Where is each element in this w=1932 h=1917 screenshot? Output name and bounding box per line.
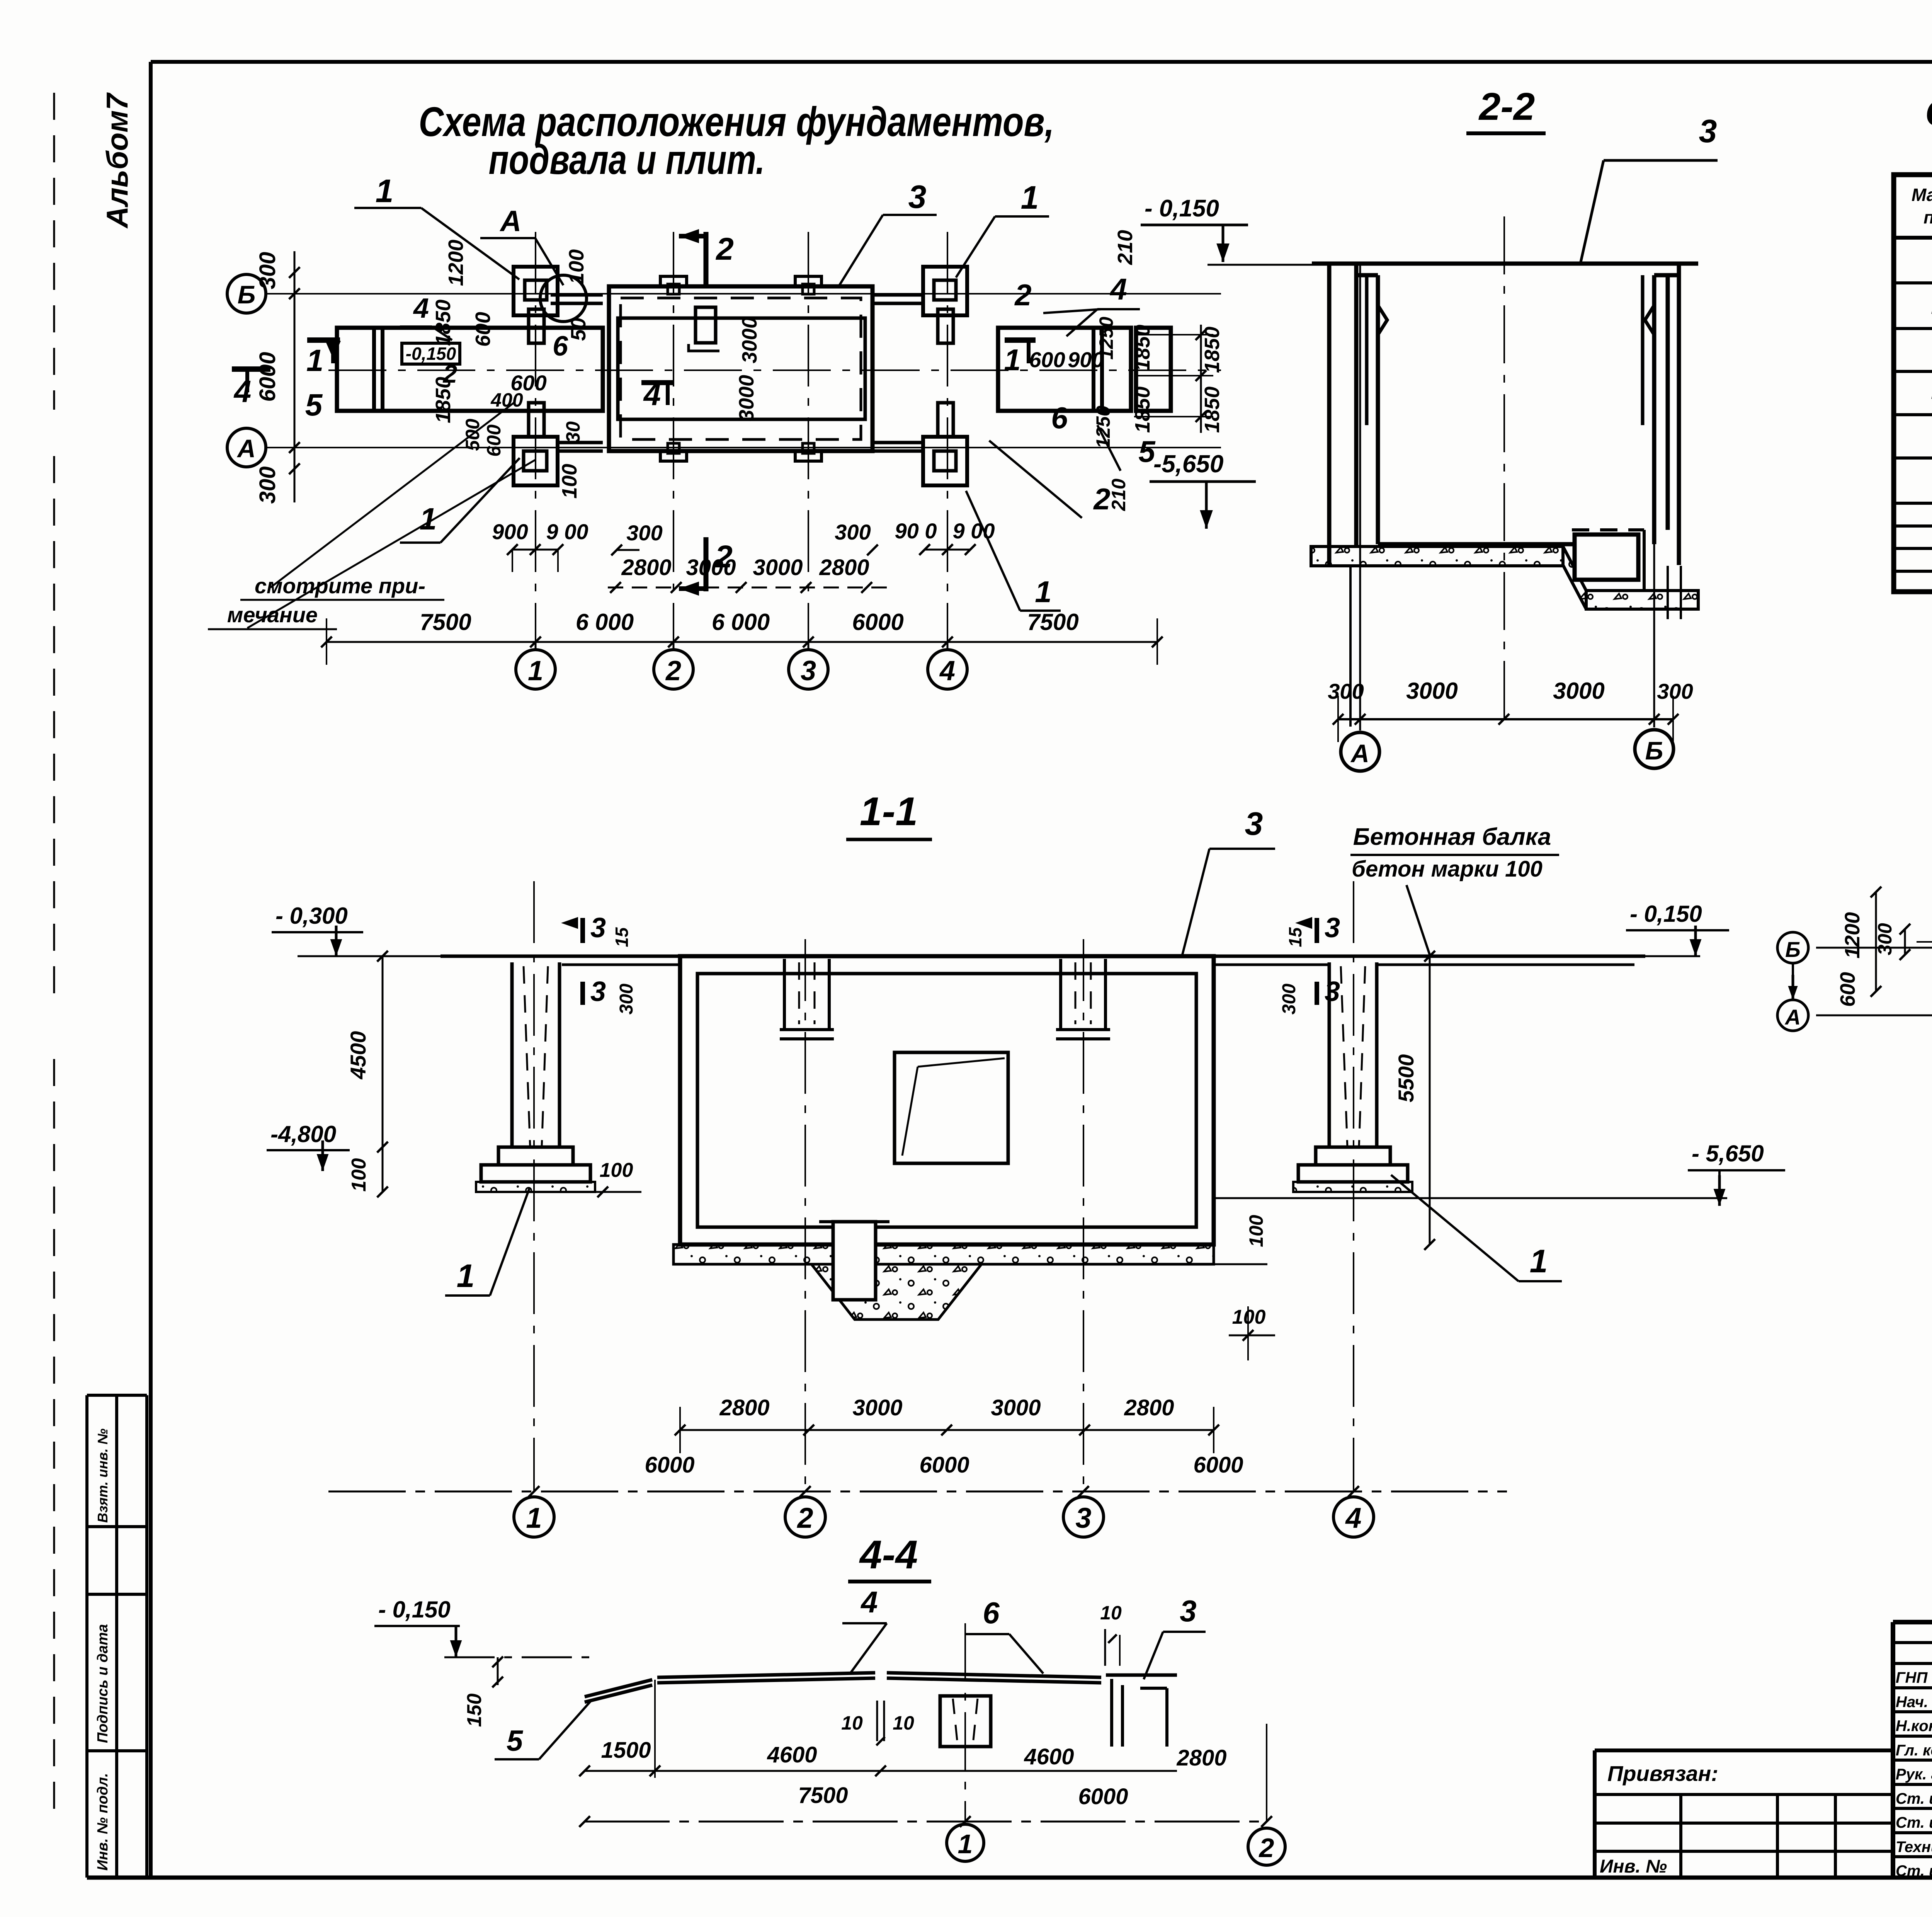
svg-text:3: 3 — [1180, 1594, 1196, 1628]
svg-text:1: 1 — [1035, 575, 1051, 609]
svg-text:Спецификация к схеме распол: Спецификация к схеме расположения — [1925, 92, 1932, 134]
svg-text:Б: Б — [1645, 736, 1663, 765]
svg-text:2: 2 — [1014, 278, 1031, 312]
svg-text:10: 10 — [893, 1712, 914, 1734]
svg-text:1: 1 — [1530, 1243, 1548, 1279]
svg-text:6: 6 — [553, 331, 568, 362]
svg-text:Инв. № подл.: Инв. № подл. — [95, 1773, 111, 1871]
svg-text:500: 500 — [462, 419, 483, 451]
svg-text:1850: 1850 — [1131, 386, 1154, 433]
svg-text:- 0,150: - 0,150 — [1145, 195, 1219, 222]
svg-text:3: 3 — [801, 655, 816, 686]
svg-text:Бетонная балка: Бетонная балка — [1353, 824, 1551, 850]
svg-text:3000: 3000 — [1406, 678, 1458, 704]
svg-text:6000: 6000 — [255, 352, 280, 402]
svg-text:Техник: Техник — [1896, 1839, 1932, 1856]
svg-text:поз: поз — [1923, 207, 1932, 227]
svg-text:- 0,150: - 0,150 — [1630, 901, 1702, 927]
svg-text:3: 3 — [1325, 976, 1340, 1007]
svg-text:90 0: 90 0 — [895, 519, 937, 543]
svg-text:Рук. гр.: Рук. гр. — [1896, 1766, 1932, 1783]
svg-text:- 0,150: - 0,150 — [378, 1597, 451, 1622]
svg-text:1200: 1200 — [1841, 912, 1864, 958]
svg-text:1250: 1250 — [1092, 405, 1114, 448]
svg-text:6 000: 6 000 — [712, 609, 770, 635]
svg-text:2800: 2800 — [1176, 1745, 1226, 1771]
svg-text:3000: 3000 — [753, 555, 803, 580]
svg-text:100: 100 — [348, 1158, 370, 1192]
svg-text:Альбом7: Альбом7 — [100, 92, 134, 229]
svg-text:4: 4 — [233, 374, 252, 409]
svg-text:3000: 3000 — [738, 317, 761, 363]
svg-text:6: 6 — [983, 1596, 1000, 1630]
svg-text:1-1: 1-1 — [860, 789, 918, 834]
svg-text:300: 300 — [626, 521, 662, 545]
svg-text:1200: 1200 — [444, 240, 468, 286]
svg-text:1500: 1500 — [601, 1738, 651, 1763]
svg-text:Ст. инж.: Ст. инж. — [1896, 1790, 1932, 1807]
svg-text:подвала и плит.: подвала и плит. — [489, 136, 765, 183]
svg-text:Марка: Марка — [1912, 185, 1932, 205]
svg-text:150: 150 — [463, 1694, 486, 1727]
svg-text:2: 2 — [715, 232, 734, 267]
svg-text:100: 100 — [1232, 1306, 1266, 1328]
svg-text:600: 600 — [1029, 347, 1065, 372]
svg-text:-5,650: -5,650 — [1153, 450, 1223, 478]
svg-text:-4,800: -4,800 — [270, 1121, 336, 1147]
svg-text:210: 210 — [1108, 478, 1129, 511]
svg-text:2: 2 — [1259, 1833, 1274, 1863]
svg-text:100: 100 — [565, 249, 588, 284]
svg-text:4: 4 — [413, 293, 429, 324]
svg-text:5500: 5500 — [1394, 1054, 1418, 1103]
svg-text:4: 4 — [1109, 272, 1127, 306]
svg-text:6000: 6000 — [645, 1452, 694, 1478]
svg-text:6000: 6000 — [852, 609, 903, 635]
svg-text:1850: 1850 — [1131, 325, 1154, 371]
svg-text:100: 100 — [1245, 1215, 1267, 1247]
svg-text:7500: 7500 — [798, 1783, 848, 1808]
svg-text:9 00: 9 00 — [546, 519, 588, 544]
svg-text:2800: 2800 — [719, 1395, 769, 1420]
svg-text:1: 1 — [958, 1829, 973, 1859]
svg-text:4: 4 — [939, 655, 955, 686]
svg-text:7500: 7500 — [1027, 609, 1078, 635]
svg-text:6 000: 6 000 — [576, 609, 634, 635]
svg-text:4-4: 4-4 — [859, 1532, 918, 1577]
svg-text:3000: 3000 — [852, 1395, 902, 1420]
svg-text:Б: Б — [1785, 937, 1801, 962]
svg-text:3000: 3000 — [1553, 678, 1604, 704]
svg-text:3: 3 — [908, 179, 927, 215]
svg-text:30: 30 — [562, 421, 584, 443]
svg-text:1850: 1850 — [1201, 386, 1224, 433]
svg-text:600: 600 — [510, 371, 546, 395]
svg-text:300: 300 — [1279, 984, 1299, 1015]
svg-text:2: 2 — [665, 655, 681, 686]
svg-text:3: 3 — [590, 976, 606, 1007]
svg-text:2800: 2800 — [819, 555, 869, 580]
svg-text:Нач. отд.: Нач. отд. — [1896, 1694, 1932, 1711]
svg-text:6000: 6000 — [1193, 1452, 1243, 1478]
svg-text:300: 300 — [616, 984, 637, 1015]
svg-text:6000: 6000 — [1078, 1784, 1128, 1809]
svg-text:1: 1 — [1004, 343, 1020, 377]
svg-text:300: 300 — [255, 252, 280, 289]
svg-text:3000: 3000 — [991, 1395, 1041, 1420]
svg-text:4600: 4600 — [767, 1742, 817, 1767]
svg-text:3: 3 — [590, 913, 606, 943]
svg-text:300: 300 — [1874, 923, 1896, 955]
svg-text:10: 10 — [1100, 1602, 1122, 1624]
svg-text:Инв. №: Инв. № — [1600, 1856, 1667, 1877]
svg-text:смотрите при-: смотрите при- — [255, 574, 425, 598]
svg-text:4: 4 — [1345, 1502, 1361, 1534]
svg-text:1250: 1250 — [1095, 317, 1117, 359]
svg-text:210: 210 — [1114, 230, 1137, 265]
svg-text:Гл. констр: Гл. констр — [1896, 1742, 1932, 1759]
svg-text:Привязан:: Привязан: — [1607, 1761, 1718, 1786]
svg-text:2: 2 — [796, 1502, 813, 1534]
svg-text:9 00: 9 00 — [953, 519, 995, 543]
svg-text:Н.контр.: Н.контр. — [1896, 1718, 1932, 1735]
svg-text:2-2: 2-2 — [1478, 85, 1535, 128]
svg-text:ГНП: ГНП — [1896, 1669, 1928, 1686]
svg-text:3: 3 — [1075, 1502, 1091, 1534]
svg-text:А: А — [1784, 1005, 1801, 1029]
svg-text:4: 4 — [643, 377, 661, 412]
svg-text:300: 300 — [255, 466, 280, 504]
svg-text:Ст. инж.: Ст. инж. — [1896, 1814, 1932, 1831]
svg-text:4: 4 — [860, 1585, 878, 1619]
svg-text:3: 3 — [1325, 913, 1340, 943]
svg-text:300: 300 — [1657, 679, 1693, 703]
svg-text:1: 1 — [376, 173, 394, 209]
svg-text:100: 100 — [558, 464, 581, 499]
svg-text:мечание: мечание — [227, 603, 318, 627]
svg-text:600: 600 — [471, 312, 495, 347]
svg-text:15: 15 — [612, 927, 632, 947]
svg-text:А: А — [500, 205, 522, 238]
svg-text:100: 100 — [600, 1159, 633, 1182]
svg-text:15: 15 — [1285, 927, 1305, 947]
svg-text:600: 600 — [483, 424, 505, 457]
svg-text:3: 3 — [1699, 113, 1717, 149]
svg-text:Взят. инв. №: Взят. инв. № — [95, 1428, 111, 1523]
svg-text:- 5,650: - 5,650 — [1692, 1141, 1764, 1166]
svg-text:5: 5 — [305, 388, 323, 422]
svg-text:2: 2 — [442, 359, 457, 388]
svg-text:6: 6 — [1051, 401, 1068, 435]
svg-text:900: 900 — [492, 519, 528, 544]
svg-text:7500: 7500 — [420, 609, 471, 635]
svg-text:бетон марки 100: бетон марки 100 — [1352, 856, 1543, 882]
svg-text:А: А — [1350, 739, 1369, 768]
svg-text:6000: 6000 — [919, 1452, 969, 1478]
svg-text:1850: 1850 — [1201, 327, 1224, 373]
svg-text:А: А — [236, 434, 256, 463]
svg-text:- 0,300: - 0,300 — [276, 903, 348, 929]
svg-text:Б: Б — [238, 280, 256, 309]
svg-text:1: 1 — [526, 1502, 542, 1534]
svg-text:5: 5 — [507, 1725, 524, 1757]
svg-text:1: 1 — [528, 655, 543, 686]
svg-text:Ст. инж.: Ст. инж. — [1896, 1863, 1932, 1880]
svg-text:600: 600 — [1836, 972, 1859, 1007]
svg-text:2800: 2800 — [621, 555, 671, 580]
svg-text:Подпись и дата: Подпись и дата — [95, 1624, 111, 1743]
svg-text:2800: 2800 — [1124, 1395, 1174, 1420]
svg-text:4500: 4500 — [346, 1031, 370, 1080]
svg-text:3: 3 — [1245, 805, 1263, 842]
svg-text:1: 1 — [306, 343, 324, 378]
svg-text:50: 50 — [567, 318, 590, 341]
svg-text:1: 1 — [457, 1258, 475, 1294]
svg-text:300: 300 — [835, 520, 871, 544]
svg-text:3000: 3000 — [735, 375, 758, 421]
svg-text:4600: 4600 — [1024, 1744, 1074, 1769]
svg-text:3000: 3000 — [686, 555, 736, 580]
svg-text:10: 10 — [841, 1712, 863, 1734]
svg-text:300: 300 — [1328, 679, 1364, 703]
svg-text:1: 1 — [1021, 179, 1039, 216]
